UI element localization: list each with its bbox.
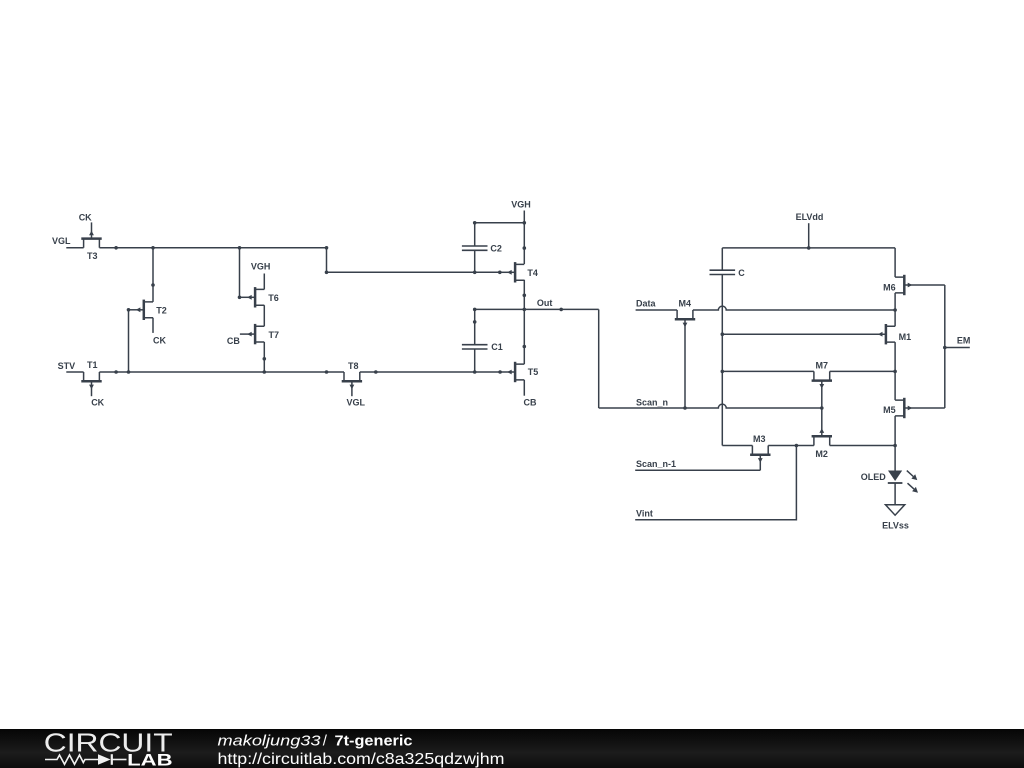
svg-text:T1: T1: [87, 360, 98, 370]
joint dot at corner: [325, 271, 329, 275]
junction on top rail: [114, 246, 118, 250]
wire Vint: [635, 446, 796, 520]
svg-text:M7: M7: [816, 360, 829, 370]
svg-text:VGL: VGL: [52, 236, 71, 246]
wire bus corner to M3: [722, 445, 752, 447]
wire M1 source down: [894, 342, 896, 371]
logo resistor squiggle: [45, 755, 98, 764]
svg-text:LAB: LAB: [127, 750, 172, 768]
transistor M6: [883, 275, 945, 295]
wire T2 source down to CK: [152, 318, 154, 333]
svg-text:http://circuitlab.com/c8a325qd: http://circuitlab.com/c8a325qdzwjhm: [218, 751, 505, 768]
svg-text:T4: T4: [527, 268, 538, 278]
svg-text:C2: C2: [490, 243, 502, 253]
svg-text:C: C: [738, 268, 745, 278]
wire C2 bottom lead: [474, 250, 476, 272]
wire to T4 gate: [327, 271, 500, 273]
svg-text:T3: T3: [87, 251, 98, 261]
wire C1 bottom lead: [474, 349, 476, 372]
svg-text:VGL: VGL: [347, 398, 366, 408]
junction Vint / M3-M2 wire: [795, 444, 799, 448]
svg-text:T2: T2: [156, 306, 167, 316]
junction bottom rail a: [114, 370, 118, 374]
joint dot below T7: [263, 357, 267, 361]
transistor M7: [812, 360, 832, 408]
svg-text:M1: M1: [899, 332, 912, 342]
svg-text:T7: T7: [269, 330, 280, 340]
wire bus to M7: [722, 370, 814, 372]
svg-text:CK: CK: [79, 212, 92, 222]
joint dot T5 drain: [523, 345, 527, 349]
svg-text:CB: CB: [227, 336, 240, 346]
wire bottom rail left: [99, 371, 344, 373]
transistor T7: [240, 324, 279, 344]
logo diode: [98, 754, 111, 765]
junction bus / M1 gate: [721, 332, 725, 336]
junction EM lead: [943, 346, 947, 350]
transistor M3: [750, 434, 770, 471]
junction M1-M5 / M7 wire: [893, 370, 897, 374]
wire T5 source to CB: [523, 380, 525, 396]
wire M4 to storage node with hop: [693, 306, 895, 310]
wire M6 source down: [894, 293, 896, 310]
diode OLED cathode bar: [888, 482, 903, 484]
svg-text:M3: M3: [753, 434, 766, 444]
wire Out corner down to Scan_n: [598, 309, 600, 408]
junction T6 gate node: [238, 296, 242, 300]
wire ELVdd lead: [808, 223, 810, 248]
wire T6 source to T7 drain: [263, 305, 265, 326]
svg-text:M6: M6: [883, 282, 896, 292]
junction top rail / T2 branch: [151, 246, 155, 250]
svg-text:OLED: OLED: [861, 472, 887, 482]
svg-text:CK: CK: [91, 398, 104, 408]
wire top rail down to T2 drain: [152, 248, 154, 302]
svg-text:VGH: VGH: [511, 200, 531, 210]
junction C2 top: [473, 221, 477, 225]
svg-text:Scan_n: Scan_n: [636, 397, 668, 407]
svg-text:ELVss: ELVss: [882, 521, 909, 531]
svg-text:T8: T8: [348, 361, 359, 371]
svg-text:ELVdd: ELVdd: [796, 212, 824, 222]
joint dot on T2 drain wire: [151, 283, 155, 287]
svg-text:T6: T6: [268, 293, 279, 303]
svg-text:M2: M2: [815, 449, 828, 459]
junction C1 bottom / rail: [473, 370, 477, 374]
wire VGH lead down: [523, 211, 525, 265]
junction OLED node: [893, 444, 897, 448]
svg-text:Out: Out: [537, 298, 553, 308]
transistor T2: [129, 300, 167, 320]
joint dot C1 top lead: [473, 320, 477, 324]
svg-text:makoljung33: makoljung33: [218, 733, 322, 750]
wire STV to T1: [66, 371, 83, 373]
wire EM lead: [945, 347, 970, 349]
junction VGH lead / C2 net: [523, 221, 527, 225]
wire M2 to OLED node: [830, 445, 895, 447]
junction M7 gate / Scan_n: [820, 406, 824, 410]
wire OLED cathode to ELVss: [894, 483, 896, 505]
junction ELVdd / rail: [807, 246, 811, 250]
svg-text:VGH: VGH: [251, 262, 271, 272]
wire OLED anode: [894, 446, 896, 471]
svg-text:CK: CK: [153, 335, 166, 345]
wire ELVdd rail: [722, 247, 895, 249]
OLED light arrow 2: [908, 483, 915, 489]
junction T2 gate node: [127, 308, 131, 312]
wire bottom rail right: [360, 371, 500, 373]
svg-text:Vint: Vint: [636, 509, 653, 519]
transistor M2: [812, 408, 832, 459]
transistor T3: [81, 222, 101, 260]
transistor T8: [342, 361, 362, 396]
junction top rail / T6 branch: [238, 246, 242, 250]
wire T7 source to bottom rail: [263, 342, 265, 372]
wire VGL to T3: [66, 247, 83, 249]
diode OLED (anode triangle): [888, 471, 902, 482]
wire C2 top lead: [474, 223, 476, 246]
junction M4 gate / Scan_n: [683, 406, 687, 410]
wire EM vertical: [944, 285, 946, 408]
capacitor C1: [462, 342, 503, 352]
joint dot before T5 gate: [498, 370, 502, 374]
transistor T4: [500, 262, 538, 282]
junction top rail corner: [325, 246, 329, 250]
svg-text:Data: Data: [636, 299, 657, 309]
wire bus below C: [721, 275, 723, 446]
wire M7 to right vertical: [830, 370, 895, 372]
transistor T5: [500, 362, 538, 382]
svg-text:M5: M5: [883, 405, 896, 415]
wire Out rail: [475, 308, 599, 310]
junction bus / M7 wire: [721, 370, 725, 374]
power symbol ELVss: [886, 505, 905, 515]
wire C2 top net: [475, 222, 525, 224]
wire top rail corner down: [326, 248, 328, 272]
junction bottom rail b: [325, 370, 329, 374]
transistor M4: [675, 299, 695, 408]
wire M1 drain up: [894, 310, 896, 326]
junction storage node: [893, 308, 897, 312]
wire T5 drain up to Out: [523, 309, 525, 364]
joint dot on Out rail: [559, 308, 563, 312]
wire rail down to C: [721, 248, 723, 270]
junction C1 top / Out: [473, 308, 477, 312]
wire T2 gate node down to bottom rail: [128, 310, 130, 372]
wire C1 top lead: [474, 309, 476, 344]
transistor M1: [722, 324, 911, 344]
junction C2 bottom node: [473, 271, 477, 275]
wire M5 drain up: [894, 371, 896, 400]
wire Scan_n with hop: [599, 404, 822, 408]
transistor M5: [883, 398, 945, 418]
wire T3 drain to rail: [99, 247, 326, 249]
capacitor C: [710, 268, 746, 278]
svg-text:STV: STV: [58, 361, 76, 371]
wire Scan_n-1 to M3 gate: [635, 469, 760, 471]
transistor T6: [240, 287, 279, 307]
transistor T1: [81, 360, 101, 396]
svg-text:CB: CB: [524, 398, 537, 408]
svg-text:T5: T5: [528, 367, 539, 377]
joint dot T4 source: [523, 294, 527, 298]
junction bottom rail / T7: [263, 370, 267, 374]
joint dot on VGH lead: [523, 246, 527, 250]
wire VGH to T6 drain: [263, 274, 265, 290]
capacitor C2: [462, 243, 502, 253]
wire top rail down to T6 gate: [239, 248, 241, 297]
junction T4-T5 / Out: [523, 308, 527, 312]
OLED light arrow 1: [907, 471, 914, 477]
svg-text:EM: EM: [957, 336, 971, 346]
wire M6 drain up to rail: [894, 248, 896, 277]
svg-text:7t-generic: 7t-generic: [335, 733, 413, 750]
wire M3 to M2: [768, 445, 814, 447]
svg-text:M4: M4: [679, 299, 692, 309]
svg-text:C1: C1: [491, 342, 503, 352]
junction bottom rail c: [374, 370, 378, 374]
svg-text:Scan_n-1: Scan_n-1: [636, 459, 676, 469]
wire Data to M4: [636, 309, 678, 311]
junction bottom rail / T2 gate branch: [127, 370, 131, 374]
wire M5 source down: [894, 416, 896, 446]
joint dot before T4 gate: [498, 271, 502, 275]
wire T4 source down to Out: [523, 280, 525, 310]
